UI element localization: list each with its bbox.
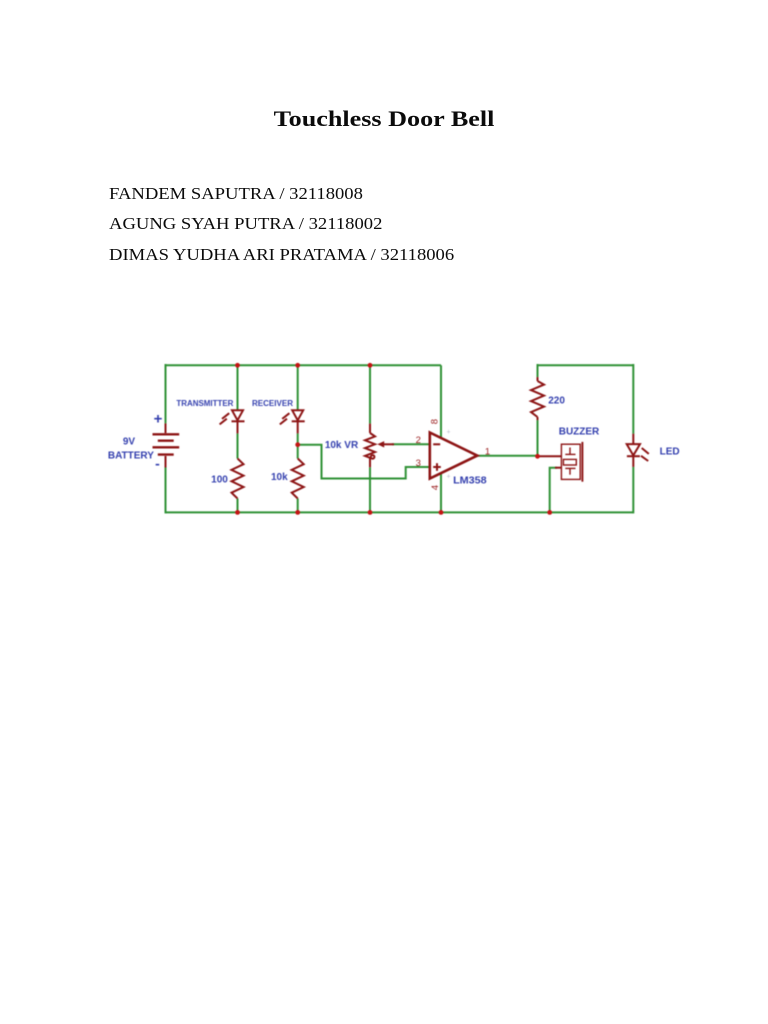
- svg-text:3: 3: [416, 458, 421, 469]
- svg-text:9V: 9V: [123, 437, 136, 448]
- svg-text:RECEIVER: RECEIVER: [252, 399, 293, 408]
- svg-text:+: +: [446, 474, 450, 481]
- svg-text:-: -: [155, 455, 160, 471]
- svg-text:1: 1: [485, 447, 490, 458]
- svg-text:LED: LED: [660, 447, 680, 458]
- svg-text:TRANSMITTER: TRANSMITTER: [176, 399, 233, 408]
- svg-text:8: 8: [430, 419, 441, 424]
- svg-text:220: 220: [548, 395, 565, 406]
- svg-text:2: 2: [416, 435, 421, 446]
- svg-text:BATTERY: BATTERY: [108, 451, 154, 462]
- svg-text:LM358: LM358: [453, 476, 487, 487]
- svg-text:10k VR: 10k VR: [325, 440, 359, 451]
- svg-text:+: +: [154, 411, 163, 428]
- svg-text:100: 100: [211, 475, 228, 486]
- svg-text:4: 4: [430, 485, 441, 490]
- svg-text:BUZZER: BUZZER: [559, 426, 600, 437]
- svg-text:10k: 10k: [271, 472, 288, 483]
- svg-text:+: +: [446, 429, 450, 436]
